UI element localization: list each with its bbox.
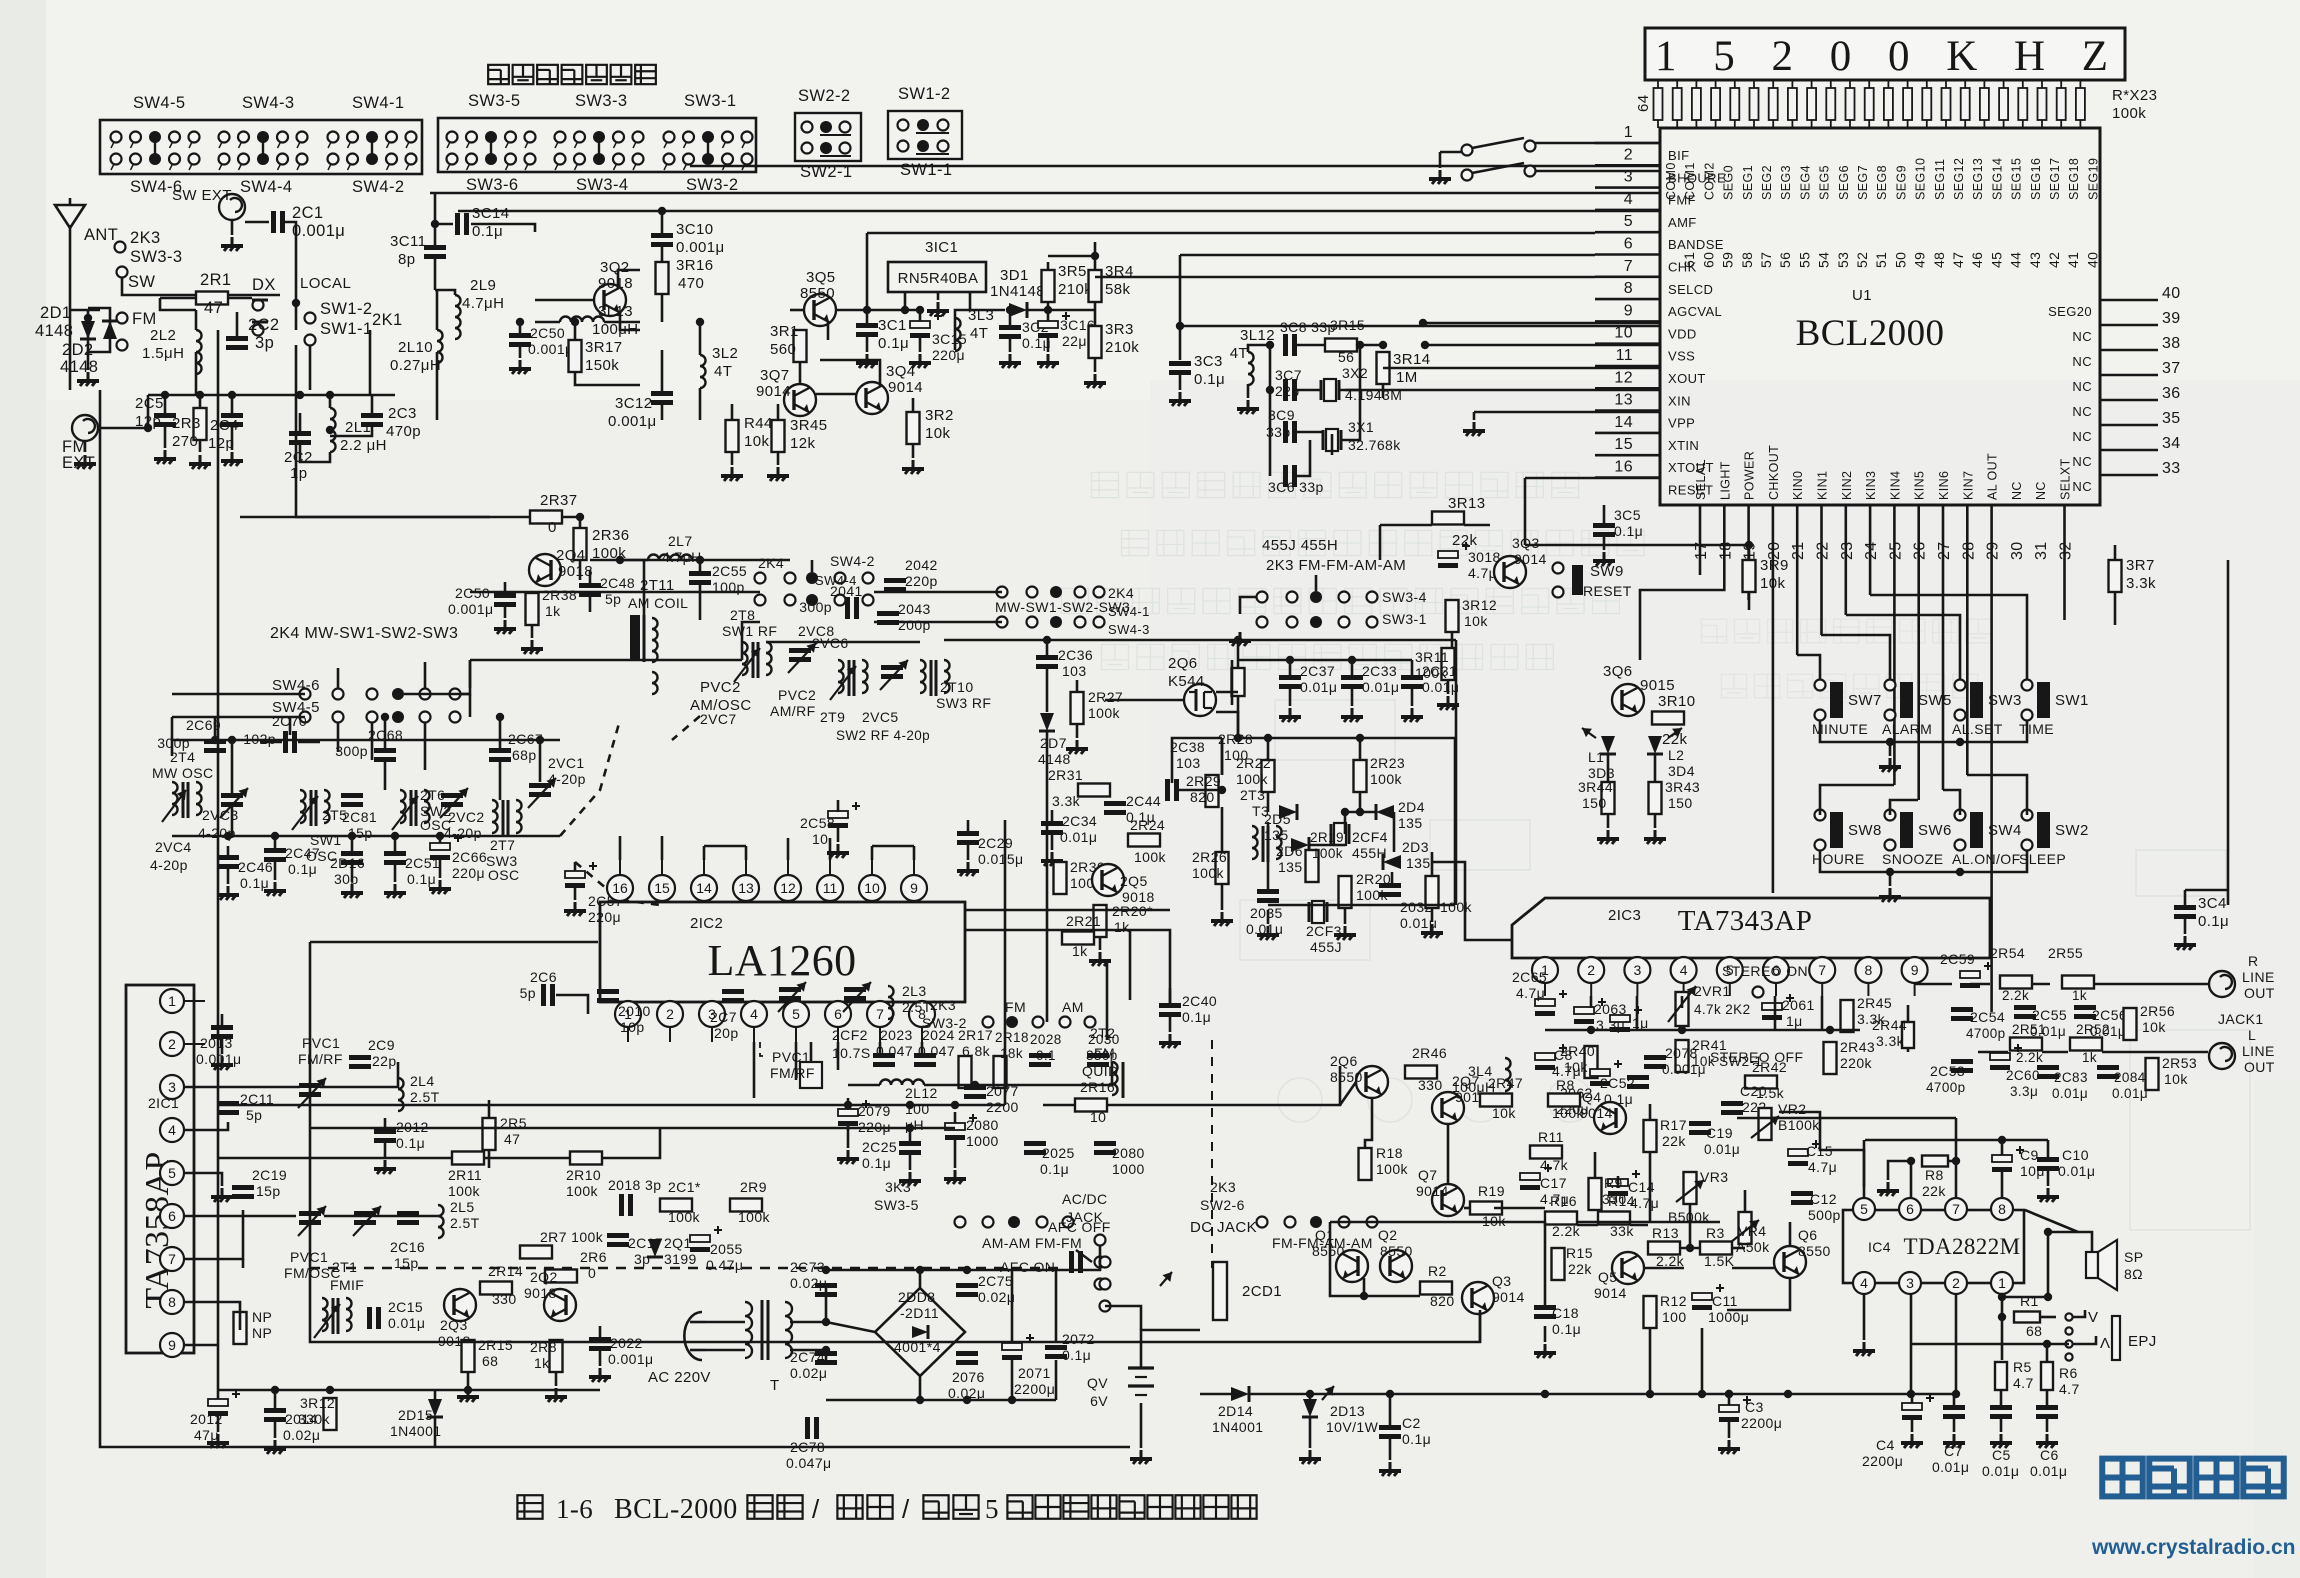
svg-text:0.01μ: 0.01μ [2052,1086,2088,1101]
svg-text:SEG18: SEG18 [2067,158,2081,200]
svg-text:2.5T: 2.5T [410,1089,440,1105]
svg-text:SW3-3: SW3-3 [575,92,627,110]
svg-text:10k: 10k [2164,1071,2188,1087]
wire c18 top [1544,1222,1547,1305]
svg-text:SW3-5: SW3-5 [468,92,520,110]
capacitor C10 0.01u [2037,1157,2059,1162]
capacitor 2C55 0.47u electrolytic [690,1235,710,1242]
svg-text:1μ: 1μ [1786,1013,1803,1029]
svg-text:47μ: 47μ [194,1427,219,1443]
svg-text:820: 820 [1190,789,1215,805]
svg-text:SEG7: SEG7 [1856,165,1870,200]
svg-text:2.2k: 2.2k [2002,988,2029,1003]
capacitor C2 0.1u [1379,1425,1401,1430]
svg-text:BCL-2000: BCL-2000 [614,1494,738,1525]
svg-text:SW2 RF 4-20p: SW2 RF 4-20p [836,728,930,743]
svg-text:2C3: 2C3 [388,405,417,422]
svg-text:SELXT: SELXT [2059,458,2073,500]
wire pin9 to 2C59 [1914,983,1952,986]
diode 2D2 4148 [103,321,117,339]
svg-text:220μ: 220μ [452,865,485,881]
svg-text:2L2: 2L2 [150,327,176,344]
resistor 2R21 1k [1062,932,1094,945]
button SW1 TIME [2022,680,2033,691]
capacitor 2C55 100p [689,571,711,576]
svg-text:C4: C4 [1876,1437,1895,1453]
svg-text:SW1: SW1 [2055,692,2089,709]
svg-text:SEG17: SEG17 [2048,158,2062,200]
svg-text:BANDSE: BANDSE [1668,237,1724,252]
transistor Q1 8550 [1336,1250,1368,1282]
svg-text:2R7 100k: 2R7 100k [540,1229,604,1245]
wire right rail [2227,560,2230,905]
wire pin10 [1425,344,1660,347]
svg-text:1-6: 1-6 [556,1494,593,1524]
svg-text:SEG11: SEG11 [1933,159,1947,200]
svg-text:3199: 3199 [664,1251,697,1267]
capacitor 2C6 5p [541,984,546,1006]
svg-text:0.1μ: 0.1μ [240,875,269,891]
svg-text:TA7343AP: TA7343AP [1678,905,1813,937]
svg-text:3p: 3p [634,1251,650,1267]
wire pin24 KIN3 [1869,505,1872,595]
svg-text:2.2 μH: 2.2 μH [340,437,387,454]
capacitor 3C3 0.1u [1169,361,1191,366]
capacitor 2C83 0.01u [2037,1065,2059,1070]
capacitor C20 222 [1721,1101,1743,1106]
inductor 3L4 100uH [1505,1058,1511,1091]
resistor 2R55 1k [2062,976,2094,989]
svg-text:OSC: OSC [488,867,520,883]
svg-text:SW3-1: SW3-1 [684,92,736,110]
capacitor 3C8 33p [1283,334,1288,356]
wire 3D1 out [1028,309,1095,312]
capacitor 2C40 0.1u [1159,1003,1181,1008]
bridge rectifier 2DD8-2D11 4001*4 [875,1288,965,1376]
svg-text:103: 103 [1062,663,1087,679]
varcap PVC1 osc b [354,1211,376,1216]
wire disc frame right [1454,738,1457,905]
wire sw elbow [469,660,472,688]
wire fet gate [1105,699,1184,702]
svg-text:0.1μ: 0.1μ [288,861,317,877]
resistor 3R13 22k [1432,512,1464,525]
svg-text:12: 12 [1614,369,1633,386]
wire frame x218 [217,330,220,990]
svg-text:24: 24 [1863,541,1880,560]
wire amp rail [1329,1222,1332,1258]
capacitor 2C19 15p [232,1185,254,1190]
varcap 2VC1 4-20p [529,783,551,788]
svg-text:2R55: 2R55 [2048,945,2083,961]
svg-text:6.8k: 6.8k [962,1043,991,1059]
svg-text:2K4 MW-SW1-SW2-SW3: 2K4 MW-SW1-SW2-SW3 [270,625,458,642]
transformer 2T5 [300,790,306,823]
svg-text:SW4-6: SW4-6 [272,677,320,694]
svg-text:SW4-4: SW4-4 [815,573,857,588]
svg-text:10k: 10k [2142,1019,2166,1035]
wire r8 junctions [1948,1160,1956,1163]
svg-text:100k: 100k [566,1183,599,1199]
wire r3 to q6 [1732,1267,1774,1270]
svg-text:8550: 8550 [1330,1069,1363,1085]
svg-text:4.7μ: 4.7μ [1516,985,1545,1001]
capacitor 2C10 10p [597,989,619,994]
svg-text:AMF: AMF [1668,215,1697,230]
svg-text:2R53: 2R53 [2162,1055,2197,1071]
svg-text:2C60: 2C60 [2006,1068,2040,1083]
svg-text:2C73: 2C73 [790,1259,825,1275]
svg-text:2R15: 2R15 [478,1337,513,1353]
wire top node bus [148,394,395,397]
svg-text:9014: 9014 [1416,1183,1449,1199]
capacitor C3 2200u electrolytic [1719,1405,1739,1412]
capacitor C7 0.01u [1943,1405,1965,1410]
svg-text:SW2-6: SW2-6 [1200,1197,1245,1213]
resistor 3R12 10k [1446,600,1459,632]
svg-text:100k: 100k [1192,865,1225,881]
capacitor 2C78b 0.001u [1644,1055,1666,1060]
svg-text:5p: 5p [246,1107,262,1123]
inductor 2L12 100uH [880,1080,924,1086]
svg-text:52: 52 [1854,252,1870,268]
svg-text:NP: NP [252,1325,272,1341]
diode 2D6 135 [1291,838,1309,852]
svg-text:12: 12 [780,880,796,896]
svg-text:10: 10 [1090,1109,1106,1125]
svg-text:3D4: 3D4 [1668,763,1695,779]
svg-text:0.1μ: 0.1μ [407,871,436,887]
svg-text:22k: 22k [1568,1261,1592,1277]
svg-text:2R24: 2R24 [1130,817,1165,833]
svg-text:8: 8 [168,1294,176,1310]
button SW5 ALARM [1885,680,1896,691]
wire btn col g up [1943,790,1960,815]
svg-text:0.01μ: 0.01μ [1982,1463,2019,1479]
svg-text:0.1μ: 0.1μ [1614,523,1643,539]
svg-text:2VC7: 2VC7 [700,711,737,727]
resistor R12 100 [1644,1296,1657,1328]
wire pin18 LIGHT [1640,505,1724,660]
svg-text:SW5: SW5 [1918,692,1952,709]
svg-text:10k: 10k [1760,575,1785,592]
svg-text:7: 7 [1952,1201,1960,1217]
svg-text:150k: 150k [585,357,619,374]
svg-text:4.7μ: 4.7μ [1468,565,1497,581]
svg-text:AC/DC: AC/DC [1062,1191,1108,1207]
wire bus pin4 AMF [458,210,1660,213]
resistor R14 33k [1598,1212,1630,1225]
capacitor C12 500p [1791,1191,1813,1196]
svg-text:8550: 8550 [1380,1243,1413,1259]
svg-text:3D1: 3D1 [1000,267,1029,284]
jack FM EXT [72,415,98,441]
svg-text:27: 27 [1936,541,1953,560]
wire afc right [602,1128,660,1158]
svg-text:VPP: VPP [1668,416,1695,431]
zener 2D13 10V/1W [1303,1399,1317,1417]
trimpot VR2 B100k [1759,1108,1772,1140]
svg-text:2R43: 2R43 [1840,1039,1875,1055]
inductor 2L4 2.5T [398,1078,404,1111]
svg-text:0.001μ: 0.001μ [528,341,574,357]
svg-text:6V: 6V [1090,1393,1108,1409]
IC U1 BCL2000 body [1660,128,2100,505]
svg-text:2200μ: 2200μ [1862,1453,1903,1469]
resistor 3R11 100k [1442,648,1455,680]
TA7343AP pins [1532,957,1558,983]
svg-text:R9: R9 [1604,1175,1623,1191]
resistor 3R14 1M [1377,352,1390,384]
resistor 2R20* 1k [1094,905,1107,937]
svg-text:C5: C5 [1992,1447,2011,1463]
svg-text:AL.SET: AL.SET [1952,721,2003,737]
svg-text:1000: 1000 [1112,1161,1145,1177]
svg-text:FMIF: FMIF [330,1277,364,1293]
svg-text:FM: FM [1005,999,1026,1015]
wire rf row top [811,560,814,572]
wire pin29 ALOUT [1990,505,1993,1012]
wire 3Q2 emitter [620,312,640,330]
wire bridge bot [826,1399,1056,1402]
svg-text:2C38: 2C38 [1170,739,1205,755]
svg-text:Q7: Q7 [1418,1167,1437,1183]
AC plug [684,1312,702,1360]
battery 6V [1128,1366,1154,1369]
svg-text:100k: 100k [1236,771,1269,787]
wire row2 common [1820,851,2027,872]
wire bus 2L7 [620,559,648,562]
capacitor 2C72 0.1u [1045,1345,1067,1350]
svg-text:100k: 100k [448,1183,481,1199]
svg-text:2: 2 [1587,962,1595,978]
wire 2c67 links [499,717,502,748]
wire supply y1128 [310,1127,955,1130]
varcap 2VC3 4-20p [221,793,243,798]
svg-text:2L4: 2L4 [410,1073,435,1089]
svg-text:2: 2 [1952,1275,1960,1291]
resistor R2 820 [1420,1282,1452,1295]
svg-text:2R9: 2R9 [740,1179,767,1195]
svg-text:KIN2: KIN2 [1840,471,1854,500]
svg-text:VSS: VSS [1668,349,1695,364]
svg-text:SW6: SW6 [1918,822,1952,839]
TA7358AP pins [160,989,184,1013]
svg-text:2072: 2072 [1062,1331,1095,1347]
capacitor 2C37 0.01u [1279,675,1301,680]
inductor 2L9 4.7uH [455,295,461,339]
svg-text:R17: R17 [1660,1117,1687,1133]
svg-text:68: 68 [482,1353,498,1369]
svg-text:VR2: VR2 [1778,1101,1806,1117]
svg-text:SEG13: SEG13 [1971,158,1985,200]
svg-text:1.5μH: 1.5μH [142,345,184,362]
svg-text:2C1: 2C1 [292,204,323,222]
svg-text:Q5: Q5 [1598,1269,1617,1285]
svg-text:470: 470 [678,275,704,292]
wire btn col h up [1967,775,2027,815]
svg-text:4-20p: 4-20p [548,771,586,787]
svg-text:100k: 100k [1312,846,1343,861]
wire disc mesh 1 [1221,738,1224,775]
switch box SW3 group [438,118,756,172]
svg-text:0.02μ: 0.02μ [283,1427,320,1443]
wire 2K3 left elbow [1240,597,1256,614]
wire reset block left [1379,525,1382,560]
svg-text:3R2: 3R2 [925,407,954,424]
svg-text:0.001μ: 0.001μ [292,222,345,240]
svg-text:56: 56 [1338,349,1354,365]
wire la p10 up [871,846,874,860]
wire 3Q4 collector [820,360,880,386]
button SW4 AL.ON/OF [1955,810,1966,821]
capacitor C18 0.1u [1534,1305,1556,1310]
svg-text:SEG6: SEG6 [1837,165,1851,200]
capacitor 2C63 3.3u [1574,1007,1594,1014]
resistor R8 100k [1548,1094,1580,1107]
svg-text:7: 7 [168,1251,176,1267]
wire la to 455 [1465,905,1512,940]
svg-text:2L12: 2L12 [905,1085,938,1101]
svg-text:9014: 9014 [756,383,791,400]
wire 2q6b drop [1365,1098,1372,1148]
svg-text:MW OSC: MW OSC [152,765,214,781]
svg-text:2C47: 2C47 [285,845,320,861]
svg-text:4001*4: 4001*4 [894,1339,941,1355]
svg-text:100k: 100k [1134,849,1167,865]
svg-text:2028: 2028 [1030,1032,1062,1047]
ground under diodes [87,352,90,370]
svg-text:4T: 4T [714,363,732,380]
wire q6 up [1789,1222,1792,1246]
contact FM b [117,340,128,351]
resistor 2R6 0 [545,1270,577,1283]
svg-text:1k: 1k [2072,988,2087,1003]
svg-text:SW3-6: SW3-6 [466,176,518,194]
transistor 2Q4 9018 [529,554,561,586]
svg-text:2C75: 2C75 [978,1273,1013,1289]
svg-text:270: 270 [172,433,198,450]
svg-text:2C53: 2C53 [1930,1063,1965,1079]
capacitor 3C1 0.1u [856,323,878,328]
regulator 3IC1 RN5R40BA [888,262,986,292]
wire SW to DX [122,278,280,295]
transistor Q3 9014 [1462,1282,1494,1314]
svg-text:SEG3: SEG3 [1779,165,1793,200]
svg-text:2C1*: 2C1* [668,1179,701,1195]
svg-text:2C48: 2C48 [600,575,635,591]
svg-text:135: 135 [1406,855,1431,871]
svg-text:1: 1 [168,993,176,1009]
resistor 3R15 56 [1325,339,1357,352]
wire bridge top [826,1269,1056,1272]
wire bus 756 drop [231,740,234,793]
IC 2IC1 TA7358AP body [126,985,194,1353]
wire pin1 node [2001,1294,2004,1360]
wire afc bus [218,1157,452,1160]
capacitor C11 1000u [1692,1293,1712,1300]
svg-text:0.001μ: 0.001μ [448,601,494,617]
wire pin7 row [184,1210,243,1259]
svg-text:OUT: OUT [2244,985,2275,1001]
wire bus pin2 [690,165,1660,168]
svg-text:2C4: 2C4 [210,417,239,434]
wire osc top bus [171,740,174,756]
svg-text:0.001μ: 0.001μ [1662,1062,1706,1077]
svg-text:R18: R18 [1376,1145,1403,1161]
wire dashed pvc border [1211,1040,1213,1268]
wire pin2 drop [1590,996,1593,1008]
node dot [84,314,92,322]
capacitor 2C48 5p [579,583,601,588]
svg-text:L2: L2 [1668,747,1684,763]
svg-text:2R23: 2R23 [1370,755,1405,771]
LCD display box 15200KHZ [1645,28,2125,80]
switch contacts SW3-1/SW3-2 [707,139,709,157]
wire x218 lower [217,990,220,1390]
wire btn col a up [1797,655,1820,679]
wire pin4 row [184,1122,228,1130]
transformer 2T7 SW3 OSC [492,800,498,833]
diode 2Q1 3199 [648,1239,662,1257]
wire pin5 drop [866,233,869,310]
svg-text:0.001μ: 0.001μ [676,239,725,256]
svg-text:-2D11: -2D11 [900,1305,939,1321]
wire r8 left elbow [1888,1161,1911,1180]
svg-text:Q1: Q1 [1315,1227,1334,1243]
svg-text:10k: 10k [744,433,769,450]
svg-text:3.3k: 3.3k [1052,793,1081,809]
svg-text:3R1: 3R1 [770,323,799,340]
svg-text:2R56: 2R56 [2140,1003,2175,1019]
svg-text:R6: R6 [2059,1365,2078,1381]
svg-text:2D4: 2D4 [1398,799,1425,815]
transformer 2T9 [838,660,844,693]
svg-text:0.01μ: 0.01μ [1362,679,1399,695]
svg-text:25: 25 [1887,541,1904,560]
svg-text:RESET: RESET [1583,583,1632,599]
svg-text:1k: 1k [2082,1050,2097,1065]
svg-text:2C74: 2C74 [790,1349,825,1365]
wire common phones [1911,1343,2069,1346]
svg-text:44: 44 [2008,252,2024,268]
wire lineout R [1970,983,1990,986]
svg-text:0.001μ: 0.001μ [608,1351,654,1367]
svg-text:1k: 1k [1114,919,1130,935]
transistor 3Q4 9014 [856,382,888,414]
capacitor 2C13 0.001u [211,1025,233,1030]
svg-text:SW4-3: SW4-3 [242,94,294,112]
wire pin1 to reset switch [1530,142,1660,145]
svg-text:220μ: 220μ [588,909,621,925]
svg-text:1k: 1k [534,1355,550,1371]
svg-text:2C56: 2C56 [2092,1007,2127,1023]
svg-text:9015: 9015 [1640,677,1675,694]
svg-text:KIN3: KIN3 [1864,471,1878,500]
wire row1 gnd stem [1889,742,1892,756]
svg-text:2061: 2061 [1782,997,1815,1013]
svg-text:BIF: BIF [1668,148,1689,163]
svg-text:2R31: 2R31 [1048,767,1083,783]
wire 3Q7-3Q4 link [816,393,856,396]
svg-text:10k: 10k [925,425,950,442]
capacitor 2C80 1000 [945,1123,965,1130]
svg-text:64: 64 [1635,95,1652,113]
svg-text:0.01μ: 0.01μ [388,1315,425,1331]
svg-text:SNOOZE: SNOOZE [1882,851,1944,867]
wire 3r9 link [1525,544,1749,547]
svg-text:2Q7: 2Q7 [1452,1073,1480,1089]
